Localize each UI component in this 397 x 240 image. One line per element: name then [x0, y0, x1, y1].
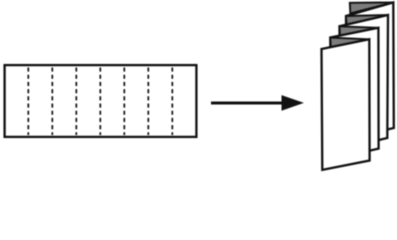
fold web F1 (hatched) — [330, 38, 369, 48]
accordion panel P3 — [340, 15, 389, 149]
accordion panel P1 (front) — [322, 39, 370, 170]
fold web F2 (hatched) — [340, 26, 379, 35]
arrow head — [282, 95, 304, 111]
fold line 2 (dashed) — [51, 68, 53, 136]
accordion panel P2 — [330, 28, 378, 160]
fold line 7 (dashed) — [171, 68, 173, 136]
fold line 4 (dashed) — [99, 68, 101, 136]
unfolded strip rectangle — [5, 65, 197, 137]
fold web F4 (top, hatched) — [350, 2, 393, 13]
fold line 6 (dashed) — [147, 68, 149, 136]
fold line 5 (dashed) — [123, 68, 125, 136]
fold web F3 (hatched) — [346, 15, 388, 25]
accordion panel P4 (backmost) — [346, 2, 394, 139]
fold line 3 (dashed) — [75, 68, 77, 136]
fold line 1 (dashed) — [27, 68, 29, 136]
arrow shaft — [211, 102, 285, 105]
